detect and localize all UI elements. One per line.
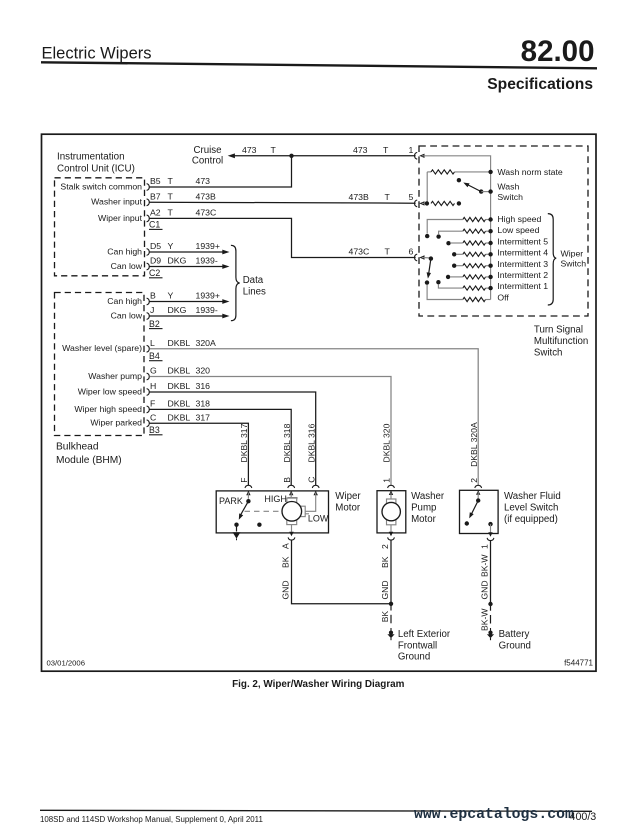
svg-text:B5: B5 <box>150 176 161 186</box>
pin D9 connector <box>147 263 150 270</box>
ground junction <box>389 602 393 606</box>
svg-text:Wash: Wash <box>497 182 519 192</box>
wash resistor drop to pin 5 <box>426 172 428 204</box>
washer pump armature M2 <box>387 499 396 504</box>
svg-text:Wiper high speed: Wiper high speed <box>74 404 142 414</box>
svg-text:Electric Wipers: Electric Wipers <box>42 45 152 63</box>
svg-text:473C: 473C <box>349 247 370 257</box>
svg-text:D5: D5 <box>150 241 161 251</box>
svg-text:Lines: Lines <box>243 286 266 297</box>
svg-text:316: 316 <box>196 381 211 391</box>
node Intermittent 2 <box>488 275 492 279</box>
svg-text:Wash norm state: Wash norm state <box>497 167 563 177</box>
HIGH leader <box>288 498 298 500</box>
park open contact <box>257 523 261 527</box>
pin6 stub <box>422 257 431 259</box>
svg-text:Pump: Pump <box>411 503 436 514</box>
svg-text:T: T <box>385 192 391 202</box>
Intermittent 4 bus stub <box>486 253 491 255</box>
pin C arrow <box>314 491 318 496</box>
svg-text:F: F <box>150 399 155 409</box>
svg-text:Frontwall: Frontwall <box>398 640 437 651</box>
svg-text:F: F <box>239 478 249 483</box>
svg-text:(if equipped): (if equipped) <box>504 514 558 525</box>
park feed <box>247 493 249 499</box>
resistor Intermittent 1 <box>463 286 486 290</box>
wire 473B from pin B7 to switch pin 5 <box>150 201 416 204</box>
wire 473 from pin B5 <box>150 156 292 187</box>
pin 6 inside arrow <box>419 255 424 259</box>
footer rule <box>40 810 592 811</box>
pin5 stub <box>422 202 427 204</box>
svg-text:1939+: 1939+ <box>196 291 220 301</box>
header rule <box>41 62 597 68</box>
svg-text:473B: 473B <box>196 192 216 202</box>
svg-text:2: 2 <box>469 478 479 483</box>
level switch contact open <box>465 521 469 525</box>
svg-text:T: T <box>271 145 277 155</box>
svg-text:82.00: 82.00 <box>521 35 595 68</box>
switch interior bus <box>422 156 491 300</box>
pin B7 connector <box>147 199 150 206</box>
svg-text:GND: GND <box>380 580 390 599</box>
resistor High speed <box>463 217 486 221</box>
left exterior frontwall ground symbol <box>387 628 394 640</box>
svg-text:Low speed: Low speed <box>497 225 539 235</box>
resistor wash norm state zigzag <box>431 170 455 174</box>
park contact to ground <box>236 525 238 532</box>
svg-text:1939-: 1939- <box>196 256 218 266</box>
svg-text:Fig. 2, Wiper/Washer Wiring Di: Fig. 2, Wiper/Washer Wiring Diagram <box>232 679 405 690</box>
svg-text:H: H <box>150 381 156 391</box>
intermittent 5 contact <box>446 241 450 245</box>
svg-text:C1: C1 <box>149 220 160 230</box>
svg-text:Intermittent 3: Intermittent 3 <box>497 259 548 269</box>
wiper switch pivot <box>429 256 433 260</box>
level switch arm arrowhead <box>469 512 474 518</box>
svg-text:B7: B7 <box>150 192 161 202</box>
motor pin C connector <box>312 485 319 488</box>
svg-text:Can high: Can high <box>107 246 142 256</box>
svg-text:B: B <box>150 291 156 301</box>
park arm arrowhead <box>239 513 243 519</box>
svg-text:Washer pump: Washer pump <box>88 371 142 381</box>
svg-text:DKBL 320A: DKBL 320A <box>469 422 479 467</box>
intermittent 1 lead <box>438 285 462 289</box>
svg-text:Y: Y <box>168 241 174 251</box>
data line arrow <box>222 250 229 255</box>
intermittent 1 contact <box>436 280 440 284</box>
svg-text:f544771: f544771 <box>564 658 593 667</box>
motor pin A connector <box>288 537 295 540</box>
svg-text:Intermittent 1: Intermittent 1 <box>497 281 548 291</box>
svg-text:BK: BK <box>380 556 390 568</box>
svg-text:Intermittent 5: Intermittent 5 <box>497 236 548 246</box>
pin C connector <box>147 420 150 427</box>
svg-text:GND: GND <box>280 580 290 599</box>
svg-text:GND: GND <box>479 580 489 599</box>
svg-text:Control: Control <box>192 155 223 166</box>
low feed <box>305 493 316 512</box>
resistor Intermittent 2 <box>463 275 486 279</box>
svg-text:Bulkhead: Bulkhead <box>56 442 99 453</box>
svg-text:B4: B4 <box>149 351 160 361</box>
wash arm arrowhead <box>463 183 469 188</box>
svg-text:A: A <box>280 543 290 549</box>
node Low speed <box>488 229 492 233</box>
wire 473C from pin A2 to switch pin 6 <box>150 218 416 257</box>
svg-text:DKBL 317: DKBL 317 <box>239 423 249 462</box>
svg-text:DKBL 316: DKBL 316 <box>306 423 316 462</box>
node Intermittent 1 <box>488 286 492 290</box>
level switch feed <box>477 492 479 498</box>
svg-text:Left Exterior: Left Exterior <box>398 629 451 640</box>
svg-text:Control Unit (ICU): Control Unit (ICU) <box>57 164 135 175</box>
pin5 resistor end node <box>457 201 461 205</box>
pin 1 arrow <box>389 490 393 495</box>
pin B connector <box>147 298 150 305</box>
node Intermittent 4 <box>488 252 492 256</box>
park switch arm <box>240 501 248 515</box>
svg-text:T: T <box>168 176 174 186</box>
svg-text:400/3: 400/3 <box>570 811 597 823</box>
svg-text:A2: A2 <box>150 208 161 218</box>
svg-text:D9: D9 <box>150 256 161 266</box>
wash resistor left lead <box>427 171 431 173</box>
svg-text:Can low: Can low <box>111 310 143 320</box>
ICU connector box (lower, B2/B4/B3) <box>55 293 145 436</box>
pin 2 arrow <box>476 490 480 495</box>
Low speed bus stub <box>486 230 491 232</box>
ground wire BK-W to battery ground <box>490 540 492 604</box>
motor ground feed <box>291 525 293 532</box>
switch pin 6 connector <box>415 254 418 261</box>
svg-text:LOW: LOW <box>308 514 329 524</box>
svg-text:1: 1 <box>409 145 414 155</box>
svg-text:DKBL: DKBL <box>168 413 191 423</box>
motor pin F connector <box>245 485 252 488</box>
brace Data Lines <box>231 245 240 320</box>
wiper arm arrowhead <box>427 272 431 278</box>
pump feed bottom <box>390 525 392 532</box>
diagram frame <box>42 134 597 671</box>
CAN data wire <box>150 315 223 317</box>
CAN data wire <box>150 301 223 303</box>
svg-text:Washer: Washer <box>411 491 445 502</box>
svg-text:Module (BHM): Module (BHM) <box>56 455 122 466</box>
intermittent 3 contact <box>452 264 456 268</box>
svg-text:HIGH: HIGH <box>264 494 287 504</box>
level switch pin 2 connector <box>475 485 482 488</box>
high feed <box>290 493 292 499</box>
brace Wiper Switch <box>548 214 556 305</box>
svg-text:Battery: Battery <box>499 629 530 640</box>
svg-text:6: 6 <box>409 247 414 257</box>
svg-text:C: C <box>306 477 316 483</box>
pump pin 1 connector <box>388 485 395 488</box>
wash switch arm <box>467 184 482 192</box>
svg-text:5: 5 <box>409 192 414 202</box>
svg-text:473: 473 <box>242 145 257 155</box>
LOW leader <box>305 513 309 515</box>
wire DKBL 320 to washer pump <box>150 377 392 486</box>
resistor Off <box>463 297 486 301</box>
pin F connector <box>147 406 150 413</box>
svg-text:1939-: 1939- <box>196 305 218 315</box>
svg-text:Stalk switch common: Stalk switch common <box>60 181 142 191</box>
park switch contact <box>234 523 238 527</box>
svg-text:Washer Fluid: Washer Fluid <box>504 491 561 502</box>
wiper motor box <box>216 491 328 533</box>
ICU connector box (upper, C1/C2) <box>55 178 145 276</box>
svg-text:DKG: DKG <box>168 305 187 315</box>
svg-text:DKBL 320: DKBL 320 <box>382 423 392 462</box>
wire DKBL 318 to wiper motor pin B <box>150 409 292 485</box>
switch pin 1 connector <box>415 152 418 159</box>
off contact lead <box>427 285 463 300</box>
svg-text:Can high: Can high <box>107 296 142 306</box>
low speed contact <box>436 234 440 238</box>
svg-text:Wiper input: Wiper input <box>98 213 143 223</box>
wiper switch arm <box>429 259 431 274</box>
svg-text:J: J <box>150 305 154 315</box>
pin 1 inside arrow <box>419 154 424 158</box>
svg-text:T: T <box>168 208 174 218</box>
svg-text:Multifunction: Multifunction <box>534 336 588 347</box>
Intermittent 2 bus stub <box>486 276 491 278</box>
intermittent 3 lead <box>457 265 463 267</box>
pin F arrow <box>246 491 250 496</box>
wash resistor right lead <box>455 171 491 173</box>
turn signal multifunction switch box <box>419 146 588 316</box>
data line arrow <box>222 299 229 304</box>
wiper motor armature M1 <box>287 498 297 503</box>
resistor wash switch row <box>431 201 455 205</box>
svg-text:Y: Y <box>168 291 174 301</box>
svg-text:C: C <box>150 413 156 423</box>
svg-text:Motor: Motor <box>411 514 437 525</box>
battery ground splice <box>488 602 492 606</box>
svg-text:Wiper low speed: Wiper low speed <box>78 386 142 396</box>
level switch arm <box>471 501 478 515</box>
pump feed top <box>390 493 392 500</box>
svg-text:Intermittent 2: Intermittent 2 <box>497 270 548 280</box>
wire 473 cruise line <box>234 155 416 157</box>
off contact <box>425 280 429 284</box>
wire DKBL 320A to washer fluid level switch <box>150 349 479 485</box>
pin H connector <box>147 389 150 396</box>
svg-text:www.epcatalogs.com: www.epcatalogs.com <box>414 807 574 823</box>
Intermittent 1 bus stub <box>486 287 491 289</box>
splice to battery ground <box>490 604 492 611</box>
svg-text:Switch: Switch <box>534 348 563 359</box>
high speed contact <box>425 234 429 238</box>
pin J connector <box>147 313 150 320</box>
svg-text:T: T <box>168 192 174 202</box>
level switch contact to pin 1 <box>488 522 492 526</box>
wire DKBL 316 to wiper motor pin C <box>150 392 316 485</box>
park switch pivot <box>246 499 250 503</box>
chassis ground triangle <box>233 532 241 538</box>
svg-text:Level Switch: Level Switch <box>504 503 558 514</box>
svg-text:320A: 320A <box>196 338 216 348</box>
pump pin 2 connector <box>388 537 395 540</box>
svg-text:Switch: Switch <box>561 258 587 268</box>
svg-text:Wiper: Wiper <box>335 491 361 502</box>
node High speed <box>488 217 492 221</box>
svg-text:320: 320 <box>196 366 211 376</box>
pin 1 arrow <box>488 532 492 537</box>
resistor Intermittent 3 <box>463 264 486 268</box>
wash switch common <box>479 189 483 193</box>
svg-text:473: 473 <box>353 145 368 155</box>
data line arrow <box>222 264 229 269</box>
svg-text:Data: Data <box>243 275 264 286</box>
svg-text:G: G <box>150 366 157 376</box>
svg-text:Instrumentation: Instrumentation <box>57 152 125 163</box>
svg-text:318: 318 <box>196 399 211 409</box>
svg-text:PARK: PARK <box>219 496 243 506</box>
intermittent 2 contact <box>446 275 450 279</box>
level switch pin 1 connector <box>487 538 494 541</box>
Intermittent 5 bus stub <box>486 242 491 244</box>
intermittent 5 lead <box>451 242 463 244</box>
svg-text:C2: C2 <box>149 268 160 278</box>
intermittent 2 lead <box>451 276 463 278</box>
low speed contact lead <box>439 231 463 234</box>
svg-text:Turn Signal: Turn Signal <box>534 325 583 336</box>
junction node 473 <box>289 154 293 158</box>
node wash switch bus <box>488 189 492 193</box>
arrow to cruise control <box>228 153 235 158</box>
svg-text:T: T <box>385 247 391 257</box>
svg-text:Ground: Ground <box>398 652 430 663</box>
svg-text:Washer input: Washer input <box>91 197 142 207</box>
resistor Intermittent 5 <box>463 241 486 245</box>
pin 5 inside arrow <box>419 201 424 205</box>
washer pump motor box <box>377 491 406 533</box>
wire DKBL 317 to wiper motor pin F <box>150 423 249 485</box>
resistor Intermittent 4 <box>463 252 486 256</box>
svg-text:Off: Off <box>497 292 509 302</box>
level switch pivot <box>476 498 480 502</box>
data line arrow <box>222 314 229 319</box>
Off bus stub <box>486 299 491 301</box>
ground wire BK from wiper motor <box>292 540 392 604</box>
node Intermittent 3 <box>488 264 492 268</box>
svg-text:BK-W: BK-W <box>479 554 489 577</box>
svg-text:1: 1 <box>382 478 392 483</box>
svg-text:Ground: Ground <box>499 640 531 651</box>
svg-text:DKBL: DKBL <box>168 399 191 409</box>
svg-text:T: T <box>383 145 389 155</box>
svg-text:DKG: DKG <box>168 256 187 266</box>
intermittent 4 contact <box>452 252 456 256</box>
svg-text:B2: B2 <box>149 319 160 329</box>
high speed contact lead <box>427 220 463 234</box>
svg-text:BK: BK <box>380 611 390 623</box>
park linkage dashed <box>245 510 282 512</box>
wash switch fixed contact <box>457 178 461 182</box>
svg-text:Wiper parked: Wiper parked <box>90 418 142 428</box>
svg-text:DKBL: DKBL <box>168 366 191 376</box>
svg-text:L: L <box>150 338 155 348</box>
svg-text:Intermittent 4: Intermittent 4 <box>497 248 548 258</box>
svg-text:473C: 473C <box>196 208 217 218</box>
battery ground symbol <box>487 628 494 640</box>
svg-text:DKBL 318: DKBL 318 <box>282 423 292 462</box>
splice to left exterior frontwall ground <box>390 604 392 611</box>
svg-text:2: 2 <box>380 544 390 549</box>
svg-text:DKBL: DKBL <box>168 381 191 391</box>
pin5 node <box>425 201 429 205</box>
Intermittent 3 bus stub <box>486 265 491 267</box>
svg-text:B3: B3 <box>149 425 160 435</box>
svg-text:High speed: High speed <box>497 214 541 224</box>
pin B5 connector <box>147 184 150 191</box>
node wash norm state <box>488 170 492 174</box>
svg-text:03/01/2006: 03/01/2006 <box>47 658 85 667</box>
svg-text:473: 473 <box>196 176 211 186</box>
svg-text:BK: BK <box>280 556 290 568</box>
pin L connector <box>147 345 150 352</box>
svg-text:BK-W: BK-W <box>479 608 489 631</box>
pin G connector <box>147 373 150 380</box>
svg-text:1: 1 <box>479 544 489 549</box>
svg-text:B: B <box>282 477 292 483</box>
level switch pin1 lead <box>490 524 492 533</box>
switch pin 5 connector <box>415 200 418 207</box>
ground wire BK from washer pump <box>390 540 392 604</box>
svg-text:473B: 473B <box>349 192 369 202</box>
CAN data wire <box>150 251 223 253</box>
svg-text:Washer level (spare): Washer level (spare) <box>62 343 142 353</box>
svg-text:1939+: 1939+ <box>196 241 220 251</box>
svg-text:Specifications: Specifications <box>487 76 593 93</box>
svg-text:Cruise: Cruise <box>194 145 222 156</box>
washer fluid level switch box <box>460 490 499 533</box>
motor pin B connector <box>288 485 295 488</box>
wash common stub <box>481 191 490 193</box>
pin A arrow <box>289 532 293 537</box>
High speed bus stub <box>486 219 491 221</box>
CAN data wire <box>150 266 223 268</box>
pin 2 arrow <box>389 532 393 537</box>
resistor Low speed <box>463 229 486 233</box>
svg-text:Switch: Switch <box>497 192 523 202</box>
svg-text:Wiper: Wiper <box>561 249 584 259</box>
svg-text:DKBL: DKBL <box>168 338 191 348</box>
svg-text:Can low: Can low <box>111 261 143 271</box>
intermittent 4 lead <box>457 253 463 255</box>
svg-text:Motor: Motor <box>335 503 361 514</box>
node Intermittent 5 <box>488 241 492 245</box>
pin D5 connector <box>147 249 150 256</box>
pin B arrow <box>289 491 293 496</box>
pin A2 connector <box>147 215 150 222</box>
svg-text:108SD and 114SD Workshop Manua: 108SD and 114SD Workshop Manual, Supplem… <box>40 815 263 824</box>
svg-text:317: 317 <box>196 413 211 423</box>
